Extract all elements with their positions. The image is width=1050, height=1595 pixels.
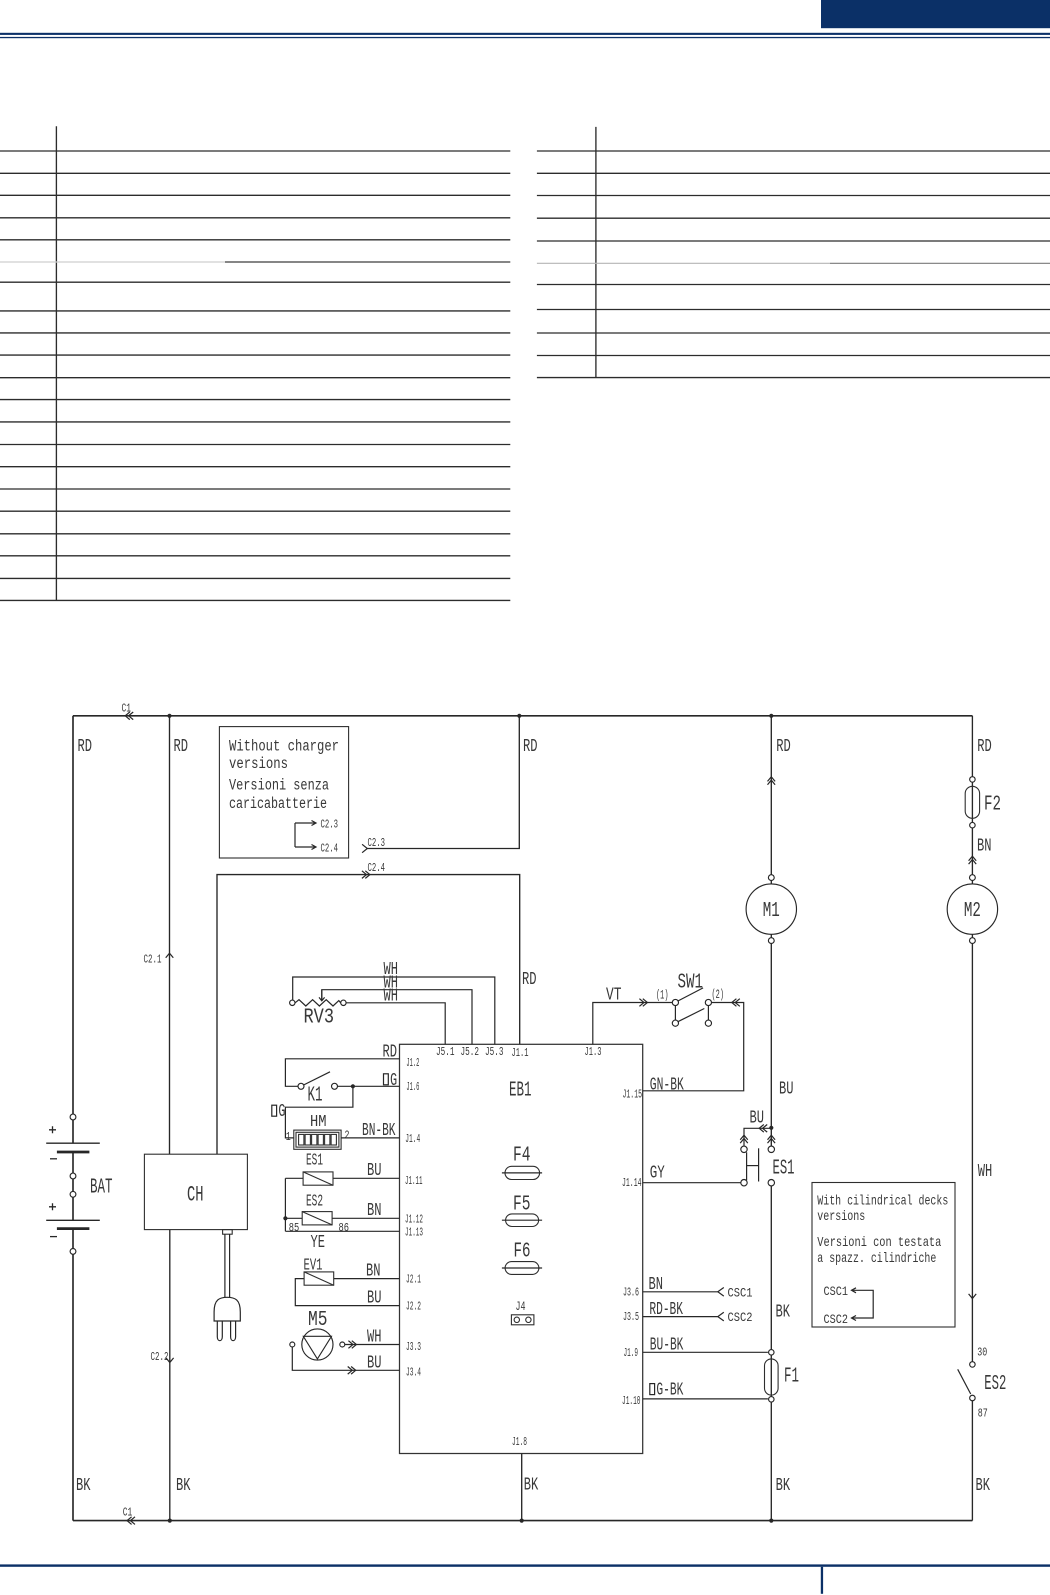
potentiometer RV3 (290, 990, 347, 1030)
wire WH (RV3 wiper to J5.2) (322, 990, 472, 1045)
parts list table right (537, 127, 1050, 378)
label OG-BK (650, 1381, 684, 1401)
svg-text:86: 86 (339, 1221, 350, 1235)
svg-text:J2.1: J2.1 (406, 1273, 421, 1287)
svg-text:CSC2: CSC2 (824, 1312, 849, 1327)
svg-text:F4: F4 (513, 1144, 531, 1167)
wire: left battery riser (72, 716, 74, 1521)
svg-text:BN: BN (649, 1275, 664, 1295)
svg-text:30: 30 (977, 1346, 987, 1360)
svg-text:J3.4: J3.4 (406, 1365, 421, 1379)
svg-text:J3.3: J3.3 (406, 1340, 421, 1354)
pressure switch ES2 (right) (958, 1346, 1007, 1421)
svg-text:caricabatterie: caricabatterie (229, 795, 327, 813)
svg-text:J3.6: J3.6 (623, 1285, 639, 1299)
junction top bus / charger riser (167, 714, 171, 718)
svg-text:BN: BN (366, 1262, 381, 1282)
svg-text:C2.3: C2.3 (368, 836, 386, 850)
fuse F1 (765, 1350, 800, 1521)
svg-text:G-BK: G-BK (656, 1381, 683, 1401)
arrow down (right riser) (969, 1294, 977, 1299)
svg-text:J2.2: J2.2 (406, 1300, 421, 1314)
svg-text:RD: RD (174, 737, 189, 757)
wire: top supply bus (73, 715, 972, 717)
svg-text:BK: BK (176, 1476, 191, 1496)
svg-text:F2: F2 (984, 794, 1001, 817)
svg-text:BU: BU (367, 1354, 382, 1374)
svg-text:BAT: BAT (90, 1177, 113, 1200)
svg-text:C2.1: C2.1 (144, 953, 162, 967)
svg-text:CSC1: CSC1 (728, 1285, 753, 1300)
electromagnetic brake ES1 (right) (741, 1146, 795, 1186)
svg-text:BK: BK (976, 1476, 991, 1496)
wire GY to J1.14 (643, 1182, 741, 1184)
svg-text:F1: F1 (784, 1366, 799, 1389)
switch SW1 (656, 972, 724, 1027)
wire BK brake to F1 (770, 1186, 772, 1350)
arrows into brake connector (740, 1135, 775, 1143)
wire GN-BK SW1 to J1.15 (643, 999, 744, 1091)
svg-text:RD: RD (776, 737, 791, 757)
battery BAT (46, 1114, 112, 1254)
svg-text:J1.14: J1.14 (622, 1176, 642, 1190)
svg-text:RD: RD (383, 1043, 398, 1063)
svg-text:a spazz. cilindriche: a spazz. cilindriche (817, 1251, 936, 1267)
wire: bottom ground bus (73, 1520, 972, 1522)
svg-text:J1.9: J1.9 (624, 1346, 639, 1360)
wire: RD drop to connector C2.3 (367, 716, 520, 849)
wire BN to CSC1 (643, 1288, 724, 1297)
svg-text:C2.4: C2.4 (368, 861, 386, 875)
svg-text:F5: F5 (513, 1193, 531, 1216)
svg-text:85: 85 (289, 1221, 300, 1235)
wire YE to J1.13 (285, 1230, 399, 1232)
wire VT J1.3 to SW1 (593, 999, 673, 1045)
svg-text:J1.1: J1.1 (512, 1046, 529, 1060)
svg-text:J1.6: J1.6 (406, 1080, 419, 1094)
note box: without charger versions (219, 727, 348, 858)
drive motor M1 (746, 777, 796, 944)
wire RD to J1.2 (285, 1059, 399, 1087)
svg-text:BK: BK (76, 1476, 91, 1496)
fuse F2 (965, 777, 1001, 828)
label OG (J1.6) (384, 1071, 398, 1091)
footer rule (0, 1564, 1050, 1593)
fuse F6 (502, 1240, 542, 1274)
svg-text:J5.3: J5.3 (485, 1045, 504, 1059)
svg-text:CSC2: CSC2 (728, 1310, 753, 1325)
svg-text:2: 2 (345, 1129, 350, 1143)
key switch K1 (298, 1072, 400, 1108)
svg-text:BN-BK: BN-BK (362, 1121, 396, 1141)
svg-text:CH: CH (187, 1183, 204, 1208)
svg-text:J1.10: J1.10 (622, 1394, 641, 1408)
svg-text:BK: BK (776, 1476, 791, 1496)
svg-text:J1.15: J1.15 (623, 1088, 643, 1102)
svg-text:BU: BU (367, 1289, 382, 1309)
wire RD-BK to CSC2 (643, 1312, 724, 1321)
svg-text:J5.2: J5.2 (461, 1045, 480, 1059)
svg-text:J1.8: J1.8 (512, 1435, 527, 1449)
svg-text:J1.11: J1.11 (405, 1174, 423, 1188)
node C2.3 (362, 836, 385, 853)
jumper J4 (511, 1299, 534, 1325)
svg-text:EB1: EB1 (509, 1080, 532, 1103)
svg-text:M1: M1 (763, 900, 780, 923)
svg-text:GN-BK: GN-BK (650, 1076, 684, 1096)
svg-text:ES1: ES1 (306, 1152, 323, 1171)
svg-text:J4: J4 (516, 1299, 526, 1314)
svg-text:J1.12: J1.12 (405, 1212, 423, 1226)
svg-text:ES1: ES1 (773, 1158, 795, 1181)
junction M1 riser / brake (769, 1126, 773, 1130)
svg-text:WH: WH (367, 1328, 382, 1348)
svg-text:BK: BK (776, 1303, 791, 1323)
svg-text:C1: C1 (122, 702, 132, 716)
mains plug (214, 1230, 240, 1341)
svg-text:87: 87 (978, 1407, 988, 1421)
svg-text:J5.1: J5.1 (436, 1045, 455, 1059)
svg-text:J1.13: J1.13 (405, 1225, 423, 1239)
wire BU jumper to brake (744, 1125, 771, 1147)
relay coil ES1 (left) (285, 1152, 399, 1186)
svg-text:C2.4: C2.4 (321, 842, 339, 856)
svg-text:RV3: RV3 (304, 1007, 335, 1030)
wire OG-BK to F1 (643, 1398, 768, 1400)
junction K1/J1.6/HM (351, 1084, 355, 1088)
svg-text:Versioni con testata: Versioni con testata (817, 1235, 941, 1251)
wire: M1 riser RD (770, 716, 772, 1147)
svg-text:F6: F6 (514, 1240, 531, 1263)
svg-text:versions: versions (817, 1209, 865, 1225)
svg-text:G: G (390, 1071, 397, 1091)
fuse F5 (502, 1193, 542, 1226)
wire: right lateral riser RD/BN/BK (971, 716, 973, 1521)
svg-text:J3.5: J3.5 (623, 1310, 639, 1324)
note box: with cilindrical decks (812, 1183, 955, 1328)
svg-text:With cilindrical decks: With cilindrical decks (817, 1194, 948, 1210)
svg-text:WH: WH (978, 1162, 993, 1182)
svg-text:RD: RD (523, 737, 538, 757)
arrow BN up (969, 856, 977, 864)
header bar (0, 0, 1050, 38)
wire BK J1.8 (521, 1454, 523, 1521)
junction bottom bus / charger (168, 1519, 172, 1523)
charger CH (144, 1154, 247, 1229)
svg-text:BU: BU (750, 1109, 765, 1129)
relay coil ES2 (left) (285, 1193, 399, 1236)
svg-text:versions: versions (229, 755, 288, 773)
wire: connector C2.4 feed to EB1 J1.1 (217, 875, 520, 1155)
svg-text:ES2: ES2 (984, 1373, 1006, 1396)
fuse F4 (502, 1144, 542, 1179)
svg-text:M2: M2 (964, 900, 981, 923)
svg-text:YE: YE (311, 1233, 326, 1253)
node C1 (top) (122, 702, 134, 720)
vacuum motor M2 (947, 875, 997, 944)
wire WH (RV3 top to J5.3) (293, 977, 495, 1044)
parts list table left (0, 126, 510, 600)
svg-text:RD-BK: RD-BK (649, 1300, 683, 1320)
svg-text:1: 1 (286, 1130, 291, 1144)
node C1 (bottom) (123, 1506, 135, 1525)
svg-text:WH: WH (384, 987, 399, 1007)
svg-text:J1.3: J1.3 (585, 1045, 602, 1059)
svg-text:HM: HM (310, 1113, 327, 1132)
svg-text:BK: BK (524, 1476, 539, 1496)
svg-text:J1.4: J1.4 (405, 1132, 420, 1146)
junction bottom bus / F1 (769, 1519, 773, 1523)
svg-text:BU: BU (779, 1080, 794, 1100)
wire BN-BK HM to J1.4 (341, 1137, 399, 1139)
svg-text:C2.2: C2.2 (151, 1350, 169, 1364)
node C2.1 (144, 953, 174, 967)
junction ES2 85 (283, 1216, 287, 1220)
svg-text:BN: BN (977, 837, 992, 857)
node C2.4 (362, 861, 385, 878)
svg-text:ES2: ES2 (306, 1193, 323, 1212)
hour meter HM (286, 1113, 350, 1149)
electronic board EB1 (400, 1044, 643, 1453)
junction top bus / J1.1 riser (517, 714, 521, 718)
svg-text:Without charger: Without charger (229, 738, 339, 756)
svg-text:Versioni senza: Versioni senza (229, 777, 329, 795)
svg-text:RD: RD (522, 970, 537, 990)
svg-text:RD: RD (977, 737, 992, 757)
svg-text:K1: K1 (308, 1085, 323, 1108)
svg-text:C2.3: C2.3 (321, 818, 339, 832)
svg-text:G: G (278, 1102, 285, 1122)
svg-text:VT: VT (606, 986, 622, 1006)
wire: charger riser C2.1/C2.2 (169, 716, 171, 1521)
svg-text:J1.2: J1.2 (406, 1056, 419, 1070)
junction top bus / M1 riser (769, 714, 773, 718)
pump motor M5 (290, 1309, 400, 1374)
wire OG to hour meter (285, 1086, 353, 1138)
svg-text:(2): (2) (712, 988, 725, 1002)
svg-text:BU: BU (367, 1161, 382, 1181)
solenoid valve EV1 (295, 1257, 399, 1306)
wire supply ES1/ES2/J1.13 (284, 1178, 286, 1231)
svg-text:CSC1: CSC1 (824, 1284, 849, 1299)
svg-text:GY: GY (650, 1164, 665, 1184)
svg-text:(1): (1) (656, 989, 669, 1003)
svg-text:BN: BN (367, 1201, 382, 1221)
junction bottom bus / J1.8 (520, 1519, 524, 1523)
svg-text:RD: RD (78, 737, 93, 757)
svg-text:BU-BK: BU-BK (650, 1336, 684, 1356)
label OG (hour meter) (272, 1102, 286, 1122)
wire WH (RV3 right to J5.1) (346, 1003, 445, 1045)
svg-text:SW1: SW1 (678, 972, 704, 995)
node C2.2 (151, 1350, 174, 1364)
wire BU-BK to F1 (643, 1351, 768, 1353)
